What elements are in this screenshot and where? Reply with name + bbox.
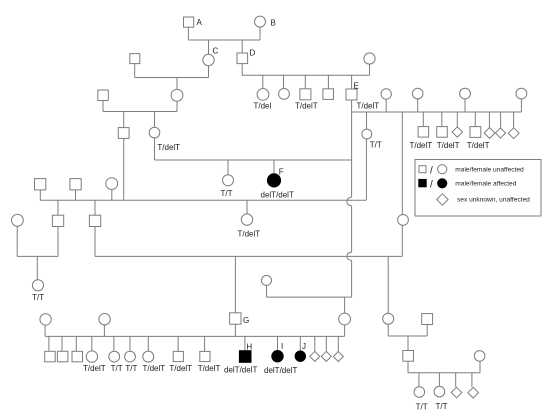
svg-text:T/delT: T/delT <box>169 364 192 373</box>
svg-text:T/delT: T/delT <box>83 364 106 373</box>
svg-text:T/delT: T/delT <box>467 141 490 150</box>
svg-text:T/T: T/T <box>125 364 137 373</box>
svg-text:T/delT: T/delT <box>410 141 433 150</box>
svg-text:F: F <box>279 168 284 177</box>
svg-text:T/T: T/T <box>416 403 428 412</box>
svg-text:T/delT: T/delT <box>295 102 318 111</box>
svg-text:T/T: T/T <box>370 140 382 149</box>
svg-text:D: D <box>250 49 256 58</box>
svg-text:E: E <box>354 82 359 91</box>
svg-text:J: J <box>302 342 306 351</box>
svg-text:B: B <box>271 19 276 28</box>
svg-text:T/delT: T/delT <box>238 230 261 239</box>
svg-text:/: / <box>430 165 433 176</box>
svg-text:/: / <box>430 179 433 190</box>
svg-text:A: A <box>197 18 203 27</box>
svg-text:delT/delT: delT/delT <box>224 365 257 374</box>
svg-text:T/delT: T/delT <box>143 364 166 373</box>
svg-text:male/female unaffected: male/female unaffected <box>455 166 524 173</box>
svg-text:T/delT: T/delT <box>198 364 221 373</box>
svg-text:T/T: T/T <box>111 364 123 373</box>
svg-text:C: C <box>213 47 219 56</box>
svg-text:T/delT: T/delT <box>157 143 180 152</box>
svg-text:T/T: T/T <box>221 189 233 198</box>
svg-text:T/del: T/del <box>254 102 272 111</box>
svg-text:delT/delT: delT/delT <box>261 191 294 200</box>
svg-text:T/delT: T/delT <box>437 141 460 150</box>
svg-text:delT/delT: delT/delT <box>264 366 297 375</box>
svg-text:sex unknown, unaffected: sex unknown, unaffected <box>457 197 530 204</box>
svg-text:T/T: T/T <box>436 402 448 411</box>
svg-text:H: H <box>246 342 252 351</box>
svg-text:G: G <box>243 316 249 325</box>
svg-text:T/delT: T/delT <box>357 101 380 110</box>
svg-text:T/T: T/T <box>32 293 44 302</box>
svg-text:male/female affected: male/female affected <box>455 180 516 187</box>
svg-text:I: I <box>281 342 283 351</box>
